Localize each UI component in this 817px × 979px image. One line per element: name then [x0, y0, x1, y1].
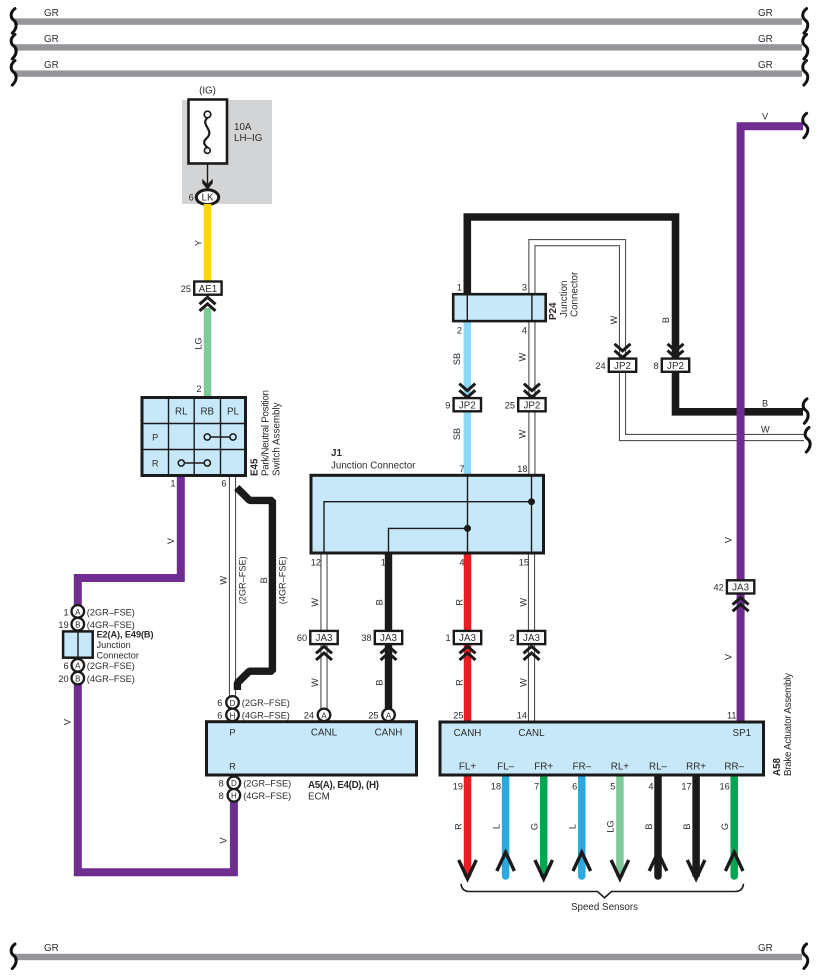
- svg-text:V: V: [63, 718, 73, 725]
- svg-text:25: 25: [181, 284, 191, 294]
- svg-text:19: 19: [453, 782, 463, 792]
- wire LG (green) AE1 to E45 pin 2: [204, 308, 212, 398]
- svg-text:JP2: JP2: [614, 361, 631, 372]
- svg-text:L: L: [491, 824, 501, 829]
- svg-text:Park/Neutral Position: Park/Neutral Position: [261, 390, 272, 476]
- svg-text:GR: GR: [758, 60, 773, 71]
- wire L speed sensor FL-: [502, 775, 510, 876]
- svg-text:Connector: Connector: [97, 650, 139, 660]
- connector 1 JA3: [445, 631, 481, 644]
- break squiggle bar1 right: [803, 9, 808, 33]
- svg-text:L: L: [568, 824, 578, 829]
- svg-text:E2(A), E49(B): E2(A), E49(B): [97, 629, 154, 639]
- svg-text:J1: J1: [331, 448, 342, 459]
- svg-text:4: 4: [459, 558, 464, 568]
- wire R speed sensor FL+: [464, 775, 472, 877]
- connector circle 19 B (4GR-FSE): [58, 618, 134, 631]
- svg-text:(4GR–FSE): (4GR–FSE): [242, 710, 290, 720]
- chevron arrow above 9 JP2 (down): [459, 384, 475, 398]
- junction connector P24: [453, 294, 546, 321]
- svg-text:PL: PL: [227, 407, 240, 418]
- svg-text:AE1: AE1: [199, 284, 218, 295]
- node junction dot at pin18 line: [528, 498, 535, 505]
- ECM box A5(A), E4(D), (H): [207, 722, 417, 775]
- svg-text:(2GR–FSE): (2GR–FSE): [242, 698, 290, 708]
- svg-text:60: 60: [297, 633, 307, 643]
- connector circle 6 A (2GR-FSE): [63, 659, 134, 672]
- svg-text:RR–: RR–: [724, 762, 744, 773]
- svg-text:(4GR–FSE): (4GR–FSE): [278, 556, 288, 604]
- svg-text:B: B: [375, 599, 385, 605]
- svg-text:B: B: [762, 399, 768, 409]
- svg-text:8: 8: [653, 361, 658, 371]
- wire V (violet) E45 pin1 to ECM R via E2 junction: [78, 477, 234, 872]
- svg-text:SB: SB: [452, 353, 462, 365]
- break squiggle bar3 left: [11, 61, 16, 86]
- svg-text:P: P: [229, 728, 235, 738]
- wire G speed sensor RR-: [730, 775, 738, 876]
- wire W (white/hollow) E45 pin6 to ECM P: [229, 477, 236, 697]
- E45 contact row P (RB-PL): [204, 434, 236, 440]
- svg-text:A58: A58: [772, 757, 783, 776]
- svg-text:38: 38: [361, 633, 371, 643]
- svg-text:JA3: JA3: [732, 583, 749, 594]
- svg-text:JA3: JA3: [380, 633, 397, 644]
- svg-text:FL–: FL–: [497, 762, 514, 773]
- svg-text:6: 6: [189, 193, 194, 203]
- arrow down FR+: [535, 860, 553, 879]
- svg-text:ECM: ECM: [308, 791, 330, 802]
- chevron arrow above 8 JP2 (down): [668, 344, 684, 358]
- connector 60 JA3: [297, 631, 338, 644]
- connector 6 LK: [189, 190, 219, 205]
- svg-text:LK: LK: [202, 193, 214, 204]
- svg-text:B: B: [75, 675, 80, 684]
- svg-text:SB: SB: [452, 428, 462, 440]
- svg-text:A: A: [75, 608, 81, 617]
- svg-text:FR+: FR+: [534, 762, 553, 773]
- svg-text:B: B: [644, 823, 654, 829]
- svg-text:JP2: JP2: [459, 400, 476, 411]
- svg-text:8: 8: [219, 791, 224, 801]
- svg-text:3: 3: [522, 283, 527, 293]
- svg-text:CANH: CANH: [454, 728, 482, 739]
- svg-text:11: 11: [727, 711, 737, 721]
- svg-text:RL–: RL–: [649, 762, 668, 773]
- svg-text:JA3: JA3: [459, 633, 476, 644]
- svg-text:W: W: [761, 425, 770, 435]
- svg-text:G: G: [720, 823, 730, 830]
- svg-text:CANL: CANL: [518, 728, 545, 739]
- svg-text:GR: GR: [758, 34, 773, 45]
- svg-text:JP2: JP2: [667, 361, 684, 372]
- svg-text:GR: GR: [44, 943, 59, 954]
- svg-text:16: 16: [719, 782, 729, 792]
- svg-text:CANH: CANH: [375, 728, 403, 739]
- connector circle 24 A at ECM CANL: [304, 709, 331, 722]
- wire SB (sky blue) P24 pin2 to J1 pin7: [464, 320, 472, 476]
- svg-text:P24: P24: [548, 302, 559, 320]
- wire B (black 4GR-FSE) E45 pin6 to ECM P: [237, 488, 273, 690]
- svg-text:8: 8: [219, 778, 224, 788]
- wire GR bus bar 2: [14, 34, 802, 51]
- svg-text:(4GR–FSE): (4GR–FSE): [87, 674, 135, 684]
- chevron arrow below 2 JA3 (up): [524, 646, 540, 660]
- arrow up FL-: [497, 852, 515, 871]
- svg-text:Switch Assembly: Switch Assembly: [272, 402, 283, 476]
- wire B speed sensor RL-: [654, 775, 662, 876]
- svg-text:B: B: [661, 317, 671, 323]
- svg-text:9: 9: [445, 400, 450, 410]
- wire B from 38 JA3 to ECM CANH circle: [385, 553, 392, 709]
- connector 9 JP2: [445, 398, 481, 411]
- svg-text:(IG): (IG): [199, 86, 216, 97]
- svg-text:A5(A), E4(D), (H): A5(A), E4(D), (H): [308, 780, 379, 791]
- svg-text:R: R: [455, 679, 465, 686]
- break squiggle bottom bar right: [803, 944, 808, 969]
- svg-text:D: D: [231, 779, 237, 788]
- wire B (black) P24 pin1 loop to 8 JP2 and right to B squiggle: [467, 217, 803, 412]
- svg-text:Connector: Connector: [570, 271, 581, 317]
- svg-text:Junction Connector: Junction Connector: [331, 461, 416, 472]
- svg-text:Brake Actuator Assembly: Brake Actuator Assembly: [783, 673, 794, 776]
- svg-text:LG: LG: [606, 820, 616, 832]
- connector circle 1 A (2GR-FSE): [63, 605, 134, 618]
- svg-text:W: W: [310, 598, 320, 607]
- wire W (hollow) P24 pin4 to J1 pin18: [528, 320, 535, 476]
- connector 38 JA3: [361, 631, 402, 644]
- svg-text:1: 1: [457, 283, 462, 293]
- svg-text:RL: RL: [175, 407, 188, 418]
- svg-text:P: P: [152, 433, 158, 443]
- svg-text:H: H: [231, 792, 237, 801]
- svg-text:W: W: [310, 678, 320, 687]
- svg-text:SP1: SP1: [733, 728, 752, 739]
- svg-text:14: 14: [517, 711, 527, 721]
- arrow up RR-: [725, 852, 743, 871]
- chevron arrow below 42 JA3 (up): [733, 598, 749, 612]
- connector 8 JP2: [653, 359, 689, 372]
- connector 42 JA3: [713, 580, 754, 593]
- svg-text:15: 15: [519, 558, 529, 568]
- wire L speed sensor FR-: [578, 775, 586, 876]
- connector circle 6 D (2GR-FSE) at ECM P: [217, 696, 290, 709]
- svg-text:JA3: JA3: [316, 633, 333, 644]
- brake actuator assembly A58 box: [440, 722, 764, 775]
- svg-text:24: 24: [304, 710, 314, 720]
- wire fuse to connector LK: [207, 164, 209, 191]
- break squiggle bottom bar left: [11, 944, 16, 969]
- svg-text:1: 1: [445, 633, 450, 643]
- svg-text:6: 6: [572, 782, 577, 792]
- break squiggle V wire right: [803, 113, 808, 138]
- svg-text:1: 1: [170, 479, 175, 489]
- svg-text:GR: GR: [758, 8, 773, 19]
- svg-text:(2GR–FSE): (2GR–FSE): [243, 778, 291, 788]
- svg-text:R: R: [453, 823, 463, 830]
- svg-text:R: R: [455, 599, 465, 606]
- svg-text:B: B: [75, 621, 80, 630]
- svg-text:GR: GR: [44, 34, 59, 45]
- break squiggle bar2 right: [803, 34, 808, 59]
- wire Y (yellow) LK to AE1: [204, 204, 212, 282]
- svg-text:Junction: Junction: [97, 640, 131, 650]
- label J1 Junction Connector: [331, 448, 416, 472]
- chevron arrow below 38 JA3 (up): [381, 646, 397, 660]
- connector 25 AE1: [181, 282, 222, 295]
- arrowhead into LK: [202, 179, 212, 190]
- connector 25 JP2: [505, 398, 546, 411]
- break squiggle W wire right: [805, 428, 810, 453]
- svg-text:W: W: [519, 678, 529, 687]
- svg-text:1: 1: [381, 558, 386, 568]
- svg-text:2: 2: [457, 326, 462, 336]
- svg-text:V: V: [762, 112, 769, 122]
- label A58 Brake Actuator Assembly: [772, 673, 794, 776]
- svg-text:LH–IG: LH–IG: [234, 133, 262, 144]
- svg-text:FL+: FL+: [459, 762, 476, 773]
- svg-text:10A: 10A: [234, 122, 252, 133]
- svg-text:20: 20: [58, 674, 68, 684]
- svg-text:H: H: [230, 711, 236, 720]
- arrow up FR-: [573, 852, 591, 871]
- svg-text:17: 17: [681, 782, 691, 792]
- svg-text:(4GR–FSE): (4GR–FSE): [243, 791, 291, 801]
- svg-text:RR+: RR+: [686, 762, 706, 773]
- svg-text:6: 6: [63, 661, 68, 671]
- svg-text:25: 25: [453, 711, 463, 721]
- svg-text:G: G: [530, 823, 540, 830]
- svg-text:18: 18: [491, 782, 501, 792]
- svg-text:Y: Y: [194, 240, 204, 246]
- svg-text:B: B: [259, 577, 269, 583]
- svg-text:GR: GR: [44, 60, 59, 71]
- svg-text:2: 2: [196, 384, 201, 394]
- chevron arrow below AE1 (up): [200, 297, 216, 311]
- svg-text:V: V: [724, 653, 734, 660]
- svg-text:D: D: [230, 699, 236, 708]
- junction connector E2(A), E49(B): [63, 629, 153, 660]
- svg-text:Speed Sensors: Speed Sensors: [571, 902, 638, 913]
- svg-text:E45: E45: [250, 458, 261, 476]
- arrow down RL+: [611, 860, 629, 879]
- break squiggle bar3 right: [803, 61, 808, 86]
- svg-text:(2GR–FSE): (2GR–FSE): [87, 607, 135, 617]
- chevron arrow below 1 JA3 (up): [460, 646, 476, 660]
- svg-text:B: B: [682, 823, 692, 829]
- svg-text:A: A: [386, 711, 392, 720]
- svg-text:GR: GR: [758, 943, 773, 954]
- brace speed sensors: [461, 884, 744, 898]
- arrow down FL+: [459, 860, 477, 879]
- svg-text:FR–: FR–: [573, 762, 592, 773]
- wire G speed sensor FR+: [540, 775, 548, 877]
- junction connector J1: [311, 475, 544, 553]
- svg-text:6: 6: [217, 698, 222, 708]
- svg-text:25: 25: [368, 710, 378, 720]
- wire GR bus bar bottom: [14, 943, 802, 960]
- svg-text:19: 19: [58, 620, 68, 630]
- connector 2 JA3: [509, 631, 545, 644]
- wire W (hollow) J1 pin15 to brake actuator CANL: [528, 553, 535, 722]
- arrow down RR+: [687, 860, 705, 879]
- svg-text:6: 6: [221, 479, 226, 489]
- arrow up RL-: [649, 852, 667, 871]
- svg-text:(2GR–FSE): (2GR–FSE): [87, 661, 135, 671]
- svg-text:RB: RB: [200, 407, 214, 418]
- break squiggle bar2 left: [11, 34, 16, 59]
- fuse block background: [182, 100, 272, 204]
- label E45 Park/Neutral Position Switch Assembly: [250, 390, 283, 476]
- wire R (red) J1 pin4 to brake actuator CANH: [464, 553, 472, 722]
- svg-text:4: 4: [522, 326, 527, 336]
- svg-text:7: 7: [534, 782, 539, 792]
- label A5(A), E4(D), (H) ECM: [308, 780, 379, 803]
- svg-text:24: 24: [595, 361, 605, 371]
- svg-text:W: W: [219, 576, 229, 585]
- wire GR bus bar 1 (top): [14, 8, 802, 25]
- svg-text:12: 12: [311, 558, 321, 568]
- svg-text:B: B: [375, 680, 385, 686]
- svg-text:(2GR–FSE): (2GR–FSE): [238, 556, 248, 604]
- connector circle 20 B (4GR-FSE): [58, 672, 134, 685]
- svg-text:Junction: Junction: [559, 281, 570, 318]
- connector circle 25 A at ECM CANH: [368, 709, 395, 722]
- chevron arrow above 25 JP2 (down): [524, 384, 540, 398]
- label P24 Junction Connector: [548, 271, 581, 320]
- svg-text:A: A: [321, 711, 327, 720]
- svg-text:5: 5: [610, 782, 615, 792]
- chevron arrow above 24 JP2 (down): [615, 344, 631, 358]
- wire W from 60 JA3 to ECM CANL circle: [320, 553, 327, 709]
- svg-text:25: 25: [505, 400, 515, 410]
- svg-text:W: W: [518, 429, 528, 438]
- svg-text:CANL: CANL: [311, 728, 338, 739]
- wire GR bus bar 3: [14, 60, 802, 77]
- connector circle 8 H (4GR-FSE) at ECM R: [219, 789, 292, 802]
- svg-text:V: V: [219, 837, 229, 844]
- connector circle 6 H (4GR-FSE) at ECM P: [217, 709, 290, 722]
- svg-text:LG: LG: [194, 337, 204, 349]
- break squiggle B wire right: [803, 399, 808, 424]
- svg-text:W: W: [519, 598, 529, 607]
- svg-text:R: R: [152, 459, 159, 469]
- E45 contact row R (RL-RB): [178, 460, 210, 466]
- node junction dot at pin7 line: [464, 525, 471, 532]
- svg-text:2: 2: [509, 633, 514, 643]
- svg-text:R: R: [229, 762, 236, 772]
- park/neutral position switch assembly E45: [142, 398, 246, 476]
- svg-text:W: W: [609, 315, 619, 324]
- svg-text:42: 42: [713, 583, 723, 593]
- connector circle 8 D (2GR-FSE) at ECM R: [219, 777, 292, 790]
- svg-text:RL+: RL+: [611, 762, 630, 773]
- fuse 10A LH-IG: [189, 100, 263, 164]
- wire B speed sensor RR+: [692, 775, 700, 877]
- svg-text:JA3: JA3: [523, 633, 540, 644]
- svg-text:W: W: [518, 352, 528, 361]
- svg-text:1: 1: [63, 607, 68, 617]
- svg-text:7: 7: [459, 464, 464, 474]
- connector 24 JP2: [595, 359, 636, 372]
- wire V (violet) right: squiggle to brake actuator SP1: [741, 126, 803, 722]
- svg-text:18: 18: [517, 464, 527, 474]
- svg-text:JP2: JP2: [523, 400, 540, 411]
- svg-text:4: 4: [648, 782, 653, 792]
- svg-text:GR: GR: [44, 8, 59, 19]
- svg-text:A: A: [75, 662, 81, 671]
- break squiggle bar1 left: [11, 9, 16, 33]
- wire LG speed sensor RL+: [616, 775, 624, 877]
- svg-text:V: V: [166, 537, 176, 544]
- wire W (hollow) P24 pin3 loop to 24 JP2 and right to W squiggle: [532, 243, 804, 438]
- svg-text:V: V: [724, 536, 734, 543]
- svg-text:6: 6: [217, 710, 222, 720]
- chevron arrow below 60 JA3 (up): [316, 646, 332, 660]
